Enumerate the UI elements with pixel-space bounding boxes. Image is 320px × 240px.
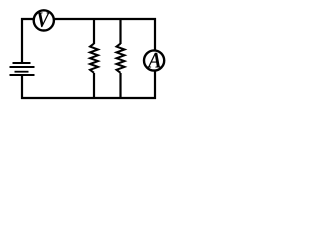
battery B1 plate long 2 bbox=[10, 66, 35, 68]
battery B1 plate long top bbox=[13, 62, 31, 64]
ammeter A circle bbox=[144, 50, 164, 70]
battery B1 plate short bbox=[15, 71, 29, 73]
voltmeter V circle bbox=[34, 10, 54, 30]
wire: bottom horizontal bbox=[21, 97, 156, 99]
wire: left vertical upper (battery top lead) bbox=[21, 18, 23, 63]
wire: left vertical lower (battery bottom lead) bbox=[21, 75, 23, 99]
wire: resistor R1 branch bbox=[93, 18, 95, 44]
voltmeter V label bbox=[37, 13, 50, 28]
wire: right vertical (ammeter branch) bbox=[154, 18, 156, 99]
wire: resistor R2 bottom lead bbox=[119, 73, 121, 99]
resistor R1 zigzag bbox=[90, 44, 98, 73]
resistor R2 zigzag bbox=[117, 44, 125, 73]
wire: top horizontal bbox=[21, 18, 156, 20]
ammeter A label bbox=[147, 53, 161, 68]
wire: resistor R2 branch bbox=[119, 18, 121, 44]
wire: resistor R1 bottom lead bbox=[93, 73, 95, 99]
battery B1 plate long bottom bbox=[10, 74, 35, 76]
